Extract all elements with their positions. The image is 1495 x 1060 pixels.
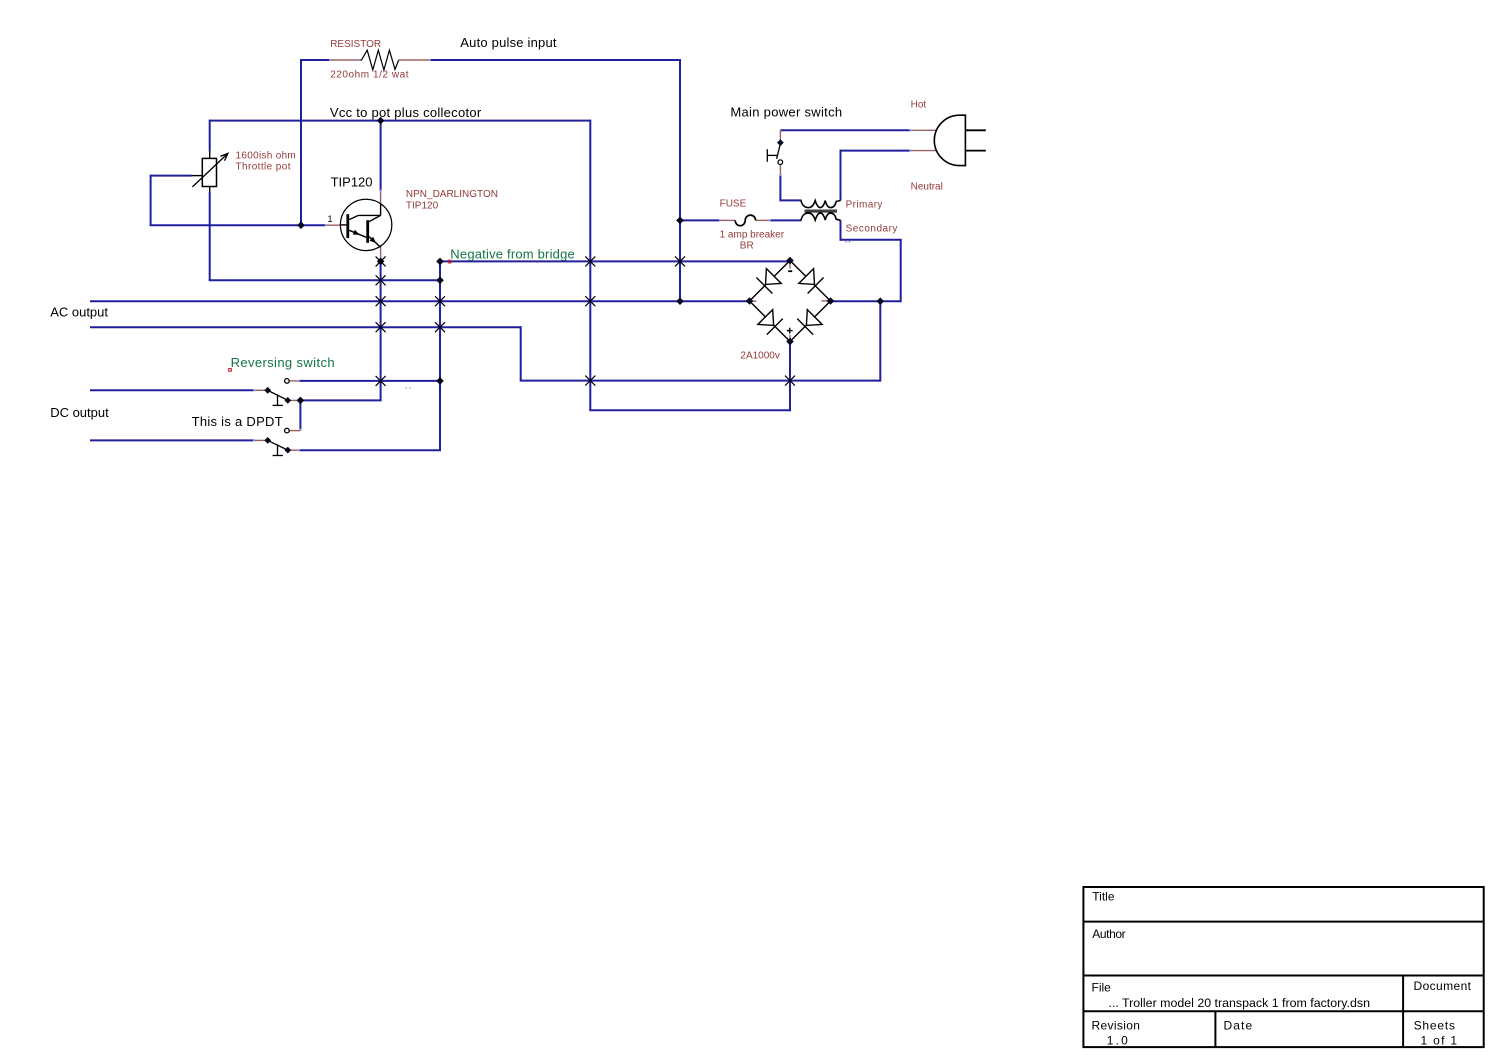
value label "Throttle pot" (236, 162, 291, 173)
pin lead: DPDT throw 1 upper circle (289, 380, 299, 382)
net label "Vcc to pot plus collecotor" (330, 105, 482, 120)
crossing X at (380.6,261.4) (376, 256, 386, 266)
pin lead: transistor base (326, 224, 341, 226)
wire: vertical x=680 from auto pulse corner down to AC node (679, 59, 681, 301)
svg-text:BR: BR (740, 240, 754, 251)
svg-text:Throttle pot: Throttle pot (236, 162, 291, 173)
value label "TIP120" maroon (406, 201, 439, 212)
svg-text:Sheets: Sheets (1414, 1019, 1456, 1033)
title block field "Date" (1224, 1019, 1254, 1033)
net label anchor red square at (230,369.4) (229, 369, 232, 372)
svg-text:Vcc to pot plus collecotor: Vcc to pot plus collecotor (330, 105, 482, 120)
wire: DPDT upper throw wire y=381 to node x=440 (299, 380, 440, 382)
crossing X at (380.6,301.2) (376, 296, 386, 306)
value label "1600ish ohm" (236, 150, 297, 161)
value label "2A1000v" (740, 351, 779, 362)
net label "AC output" (50, 305, 108, 320)
crossing X at (590.3,301.2) (585, 296, 595, 306)
svg-text:1: 1 (328, 214, 333, 224)
wire: pot top vertical x=210 from Vcc line to pot pin (209, 120, 211, 152)
svg-text:Author: Author (1092, 927, 1125, 941)
value label "220ohm 1/2 wat" (330, 70, 409, 81)
wire: emitter vertical x=380.6 from junction down to y=400 (380, 261, 382, 400)
DPDT throw 1 contact dot (287.8,400.4) (284, 397, 291, 404)
svg-text:Document: Document (1414, 979, 1472, 993)
value label "RESISTOR" (330, 39, 381, 50)
pin lead: DPDT pole 1 (254, 389, 265, 391)
svg-text:TIP120: TIP120 (406, 201, 439, 212)
pin lead: fuse left (720, 219, 735, 221)
svg-text:1600ish ohm: 1600ish ohm (236, 150, 297, 161)
title block field "Revision" (1092, 1019, 1141, 1033)
svg-text:TIP120: TIP120 (331, 174, 373, 189)
svg-text:NPN_DARLINGTON: NPN_DARLINGTON (406, 189, 498, 200)
junction at bridge minus vertex (790,260.5) (786, 257, 794, 265)
wire: auto pulse net horizontal from resistor to (680,60) (430, 59, 681, 61)
svg-text:Hot: Hot (911, 100, 927, 111)
net label "Negative from bridge" (450, 246, 575, 261)
wire: horizontal y=200.4 from switch to primary left (779, 199, 801, 201)
note label "Main power switch" (730, 104, 842, 119)
crossing X at (440,327.2) (435, 322, 445, 332)
fuse 1 amp breaker BR s-curve body (735, 215, 755, 226)
DPDT throw 2 contact dot (287.8,450.1) (284, 447, 291, 454)
wire: AC output top horizontal y=301 from x=90 to bridge left vertex (90, 300, 747, 302)
svg-text:1 of 1: 1 of 1 (1421, 1034, 1459, 1048)
svg-text:... Troller model 20 transpack: ... Troller model 20 transpack 1 from fa… (1109, 996, 1371, 1010)
pin lead: resistor left (330, 59, 360, 61)
svg-text:Revision: Revision (1092, 1019, 1141, 1033)
wire: vertical x=880 from AC right node down to y=380.6 (879, 301, 881, 381)
net label "Auto pulse input" (460, 35, 557, 50)
title block field "Author" (1092, 927, 1125, 941)
wire: fuse left wire from node x=680 (680, 219, 720, 221)
wire: DPDT cross-link vertical x=300.4 from y=400 to y=430.6 (299, 400, 301, 430)
wire: AC output bottom horizontal y=327 from x=90 to x=521 (90, 326, 521, 328)
pin lead: bridge right vertex stub (822, 300, 830, 302)
main power switch S1 symbol (767, 144, 782, 165)
wire: horizontal y=280 from pot bottom to node at x=440 (209, 279, 440, 281)
crossing X at (680,261.4) (675, 256, 685, 266)
junction at bridge left vertex (749.5,301) (746, 297, 754, 305)
svg-text:This is a DPDT: This is a DPDT (192, 414, 283, 429)
pin lead: transistor emitter (380, 247, 382, 262)
resistor RESISTOR 220ohm zigzag body (360, 50, 398, 70)
pin lead: DPDT pole 2 (254, 439, 265, 441)
wire: DPDT lower throw wire y=450 to x=440 (299, 449, 441, 451)
svg-text:Auto pulse input: Auto pulse input (460, 35, 557, 50)
svg-text:Primary: Primary (846, 199, 883, 210)
svg-text:Reversing switch: Reversing switch (231, 355, 335, 370)
title block revision value "1.0" (1107, 1034, 1130, 1048)
wire: horizontal y=410 from x=590 to bridge bottom lead (589, 409, 790, 411)
svg-text:Title: Title (1092, 890, 1115, 904)
svg-text:220ohm 1/2 wat: 220ohm 1/2 wat (330, 70, 409, 81)
wire: collector vertical x=380.6 from Vcc line down to transistor (380, 121, 382, 191)
wire: bridge right vertex to corner x=901 (832, 300, 901, 302)
transformer T1 primary coil (801, 200, 841, 207)
transistor Q1 pin number 1 (328, 214, 333, 224)
junction at AC node (680,301.2) (676, 297, 684, 305)
pin lead: DPDT throw 2 lower (290, 449, 300, 451)
crossing X at (380.6,280.3) (376, 275, 386, 285)
ref label "BR" (740, 240, 754, 251)
junction at bridge right vertex (830.5,301) (827, 297, 835, 305)
title block field "Sheets" (1414, 1019, 1456, 1033)
pin lead: plug neutral (910, 150, 942, 152)
crossing X at (590.3,380.6) (585, 376, 595, 386)
svg-text:2A1000v: 2A1000v (740, 351, 779, 362)
bridge diode D2 on top-right edge (799, 269, 824, 294)
junction at Vcc/collector (380.6,120.6) (377, 117, 385, 125)
junction at main switch pole (780.4,142.6) (777, 139, 784, 146)
wire: bridge bottom vertical x=790 from + vertex down to y=410 (789, 342, 791, 412)
svg-text:RESISTOR: RESISTOR (330, 39, 381, 50)
pin lead: plug hot (910, 129, 942, 131)
svg-text:Negative from bridge: Negative from bridge (450, 246, 575, 261)
pin lead: fuse right (756, 219, 770, 221)
transformer T1 secondary coil (801, 213, 841, 220)
svg-text:Main power switch: Main power switch (730, 104, 842, 119)
wire: base wire horizontal y=225 to transistor base lead (150, 224, 326, 226)
note label "This is a DPDT" (192, 414, 283, 429)
crossing X at (380.6,380.9) (376, 376, 386, 386)
wire: fuse right wire to transformer secondary (770, 219, 802, 221)
bridge diode D1 on top-left edge (756, 269, 781, 294)
title block field "Title" (1092, 890, 1115, 904)
junction at negative net start (440,261.4) (436, 258, 444, 266)
junction at emitter node (380.6,261.4) (377, 258, 385, 266)
value label "1 amp breaker" (720, 230, 785, 241)
wire: vertical x=301 from resistor corner down to base node (300, 59, 302, 225)
wire: horizontal y=380.6 from x=521 to x=880 (520, 380, 881, 382)
crossing X at (440,301.2) (435, 296, 445, 306)
lead end tick marks (253, 59, 911, 451)
DPDT pole 2 contact dot (267.7,440.4) (264, 437, 271, 444)
wire: vertical x=590 from Vcc line down to y=410 (589, 120, 591, 411)
transformer T1 core lines (805, 210, 838, 212)
net label "DC output" (50, 405, 109, 420)
junction at AC right node (880.3,301.2) (877, 297, 885, 305)
wire: secondary right lead vertical x=840.5 down to y=240 (840, 220, 842, 241)
bridge diode D3 on bottom-left edge (758, 310, 783, 335)
wire: vertical x=901 from y=240 down to AC line (900, 240, 902, 302)
wire: negative from bridge horizontal y=261 from x=440 to bridge - vertex (440, 260, 789, 262)
pin lead: DPDT throw 1 lower (290, 399, 299, 401)
wire: vertical x=521 from y=327 to y=380.6 (520, 326, 522, 380)
net label "Reversing switch" (231, 355, 335, 370)
plug P1 prongs (965, 130, 985, 150)
pin label "Primary" (846, 199, 883, 210)
pin lead: transistor collector (380, 191, 382, 204)
title block sheets value "1 of 1" (1421, 1034, 1459, 1048)
net label anchor red square at (449.5,261.6) (448, 260, 451, 263)
stray tiny dots near (406,388) (406, 387, 411, 389)
junction at DPDT throw1 node (300.4,400.4) (297, 397, 305, 405)
wire: neutral wire horizontal y=150.6 from x=840.5 to plug (840, 150, 911, 152)
svg-text:File: File (1092, 980, 1112, 994)
pin lead: bridge minus vertex stub (789, 261, 791, 268)
potentiometer wiper arrow diagonal (192, 153, 228, 187)
plug P1 body (934, 115, 965, 165)
bridge diode D4 on bottom-right edge (797, 310, 822, 335)
pin label "Neutral" (911, 182, 943, 193)
stray tiny dots near (846,241.5) (845, 241, 850, 243)
wire: horizontal y=400 from DPDT throw junction to emitter line (300, 399, 381, 401)
pin lead: DPDT throw 2 upper circle (289, 430, 300, 432)
wire: DC output bottom horizontal y=440 from x=90 (90, 439, 254, 441)
potentiometer throttle pot body rectangle (202, 158, 216, 186)
svg-text:DC output: DC output (50, 405, 109, 420)
wire: pot wiper loop horizontal y=175 (151, 175, 192, 177)
pin label "Hot" (911, 100, 927, 111)
pin lead: main switch bottom (779, 165, 781, 175)
crossing X at (790,380.6) (785, 376, 795, 386)
bridge rectifier BR 2A1000v diamond edges (750, 261, 831, 342)
pin lead: bridge left vertex stub (750, 300, 757, 302)
svg-text:Date: Date (1224, 1019, 1254, 1033)
DPDT reversing switch section 2 lever and bracket (268, 428, 289, 455)
title block field "Document" (1414, 979, 1472, 993)
wire: Vcc horizontal y=120 from pot top to x=590 (210, 120, 591, 122)
DPDT reversing switch section 1 lever and bracket (268, 379, 289, 406)
junction at DPDT upper throw wire (440,380.9) (436, 377, 444, 385)
bridge minus polarity mark (788, 270, 792, 272)
crossing X at (590.3,261.4) (585, 256, 595, 266)
wire: main switch bottom vertical x=780.4 (779, 175, 781, 200)
wire: DC output top horizontal y=390 from x=90 (90, 389, 254, 391)
title block field "File" (1092, 980, 1112, 994)
wire: neutral vertical x=840.5 down to primary right (840, 150, 842, 201)
title block frame (1083, 887, 1483, 1047)
pin lead: bridge plus vertex stub (789, 335, 791, 341)
svg-text:Neutral: Neutral (911, 182, 943, 193)
transistor Q1 internal darlington symbol (340, 204, 380, 247)
junction at bridge plus vertex (790,341.5) (786, 338, 794, 346)
svg-text:FUSE: FUSE (720, 199, 747, 210)
part label "TIP120" (331, 174, 373, 189)
pin label "Secondary" (846, 223, 898, 234)
wire: resistor left lead to corner at (301,60) (300, 59, 330, 61)
junction at fuse node (680,220.4) (676, 217, 684, 225)
value label "NPN_DARLINGTON" (406, 189, 498, 200)
title block file name (1109, 996, 1371, 1010)
value label "FUSE" (720, 199, 747, 210)
svg-text:Secondary: Secondary (846, 223, 898, 234)
svg-text:1.0: 1.0 (1107, 1034, 1130, 1048)
potentiometer pin stubs (191, 151, 209, 193)
svg-text:AC output: AC output (50, 305, 108, 320)
wire: hot wire horizontal y=130 from switch to plug (780, 129, 910, 131)
wire: horizontal y=240 from secondary right to x=901 (841, 239, 902, 241)
transistor Q1 TIP120 circle (340, 199, 391, 250)
wire: vertical x=440 negative net from y=261 to y=450 (439, 261, 441, 450)
wire: pot wiper loop vertical x=150 (150, 175, 152, 226)
svg-text:1 amp breaker: 1 amp breaker (720, 230, 785, 241)
crossing X at (380.6,327.2) (376, 322, 386, 332)
bridge plus polarity mark (787, 328, 793, 334)
pin lead: resistor right (398, 59, 430, 61)
DPDT pole 1 contact dot (267.7,390.3) (264, 387, 271, 394)
pin lead: main switch top (779, 130, 781, 142)
junction at pot wire end (440,280.3) (436, 277, 444, 285)
junction at base node (301,225.2) (297, 221, 305, 229)
wire: pot bottom vertical x=210 down to y=280 (209, 192, 211, 280)
